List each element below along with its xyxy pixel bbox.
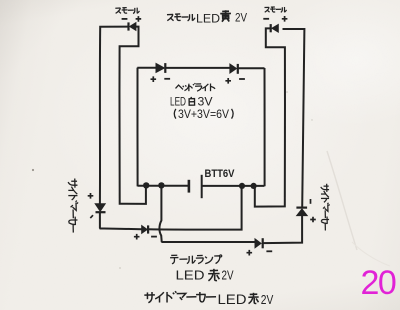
wire: headlight box top edge segment 3 — [238, 67, 265, 69]
LED D4 headlight right (white), anode left — [230, 64, 238, 74]
label plus of D4 — [225, 78, 231, 84]
svg-text:20: 20 — [361, 264, 396, 302]
label BTT6V — [205, 168, 235, 180]
page number 20 (magenta) — [361, 264, 396, 302]
label スモール of D1 — [115, 8, 139, 14]
label minus of D6 — [310, 199, 312, 204]
wire: top-left LED cathode to left rail, down to D5 — [100, 27, 128, 204]
label サイドマーカー of D5 (vertical) — [68, 179, 78, 233]
LED D3 headlight left (white), anode left — [156, 63, 165, 73]
label サイドマーカー of D6 (vertical) — [321, 184, 330, 231]
LED D8 tail-lamp right, anode left — [255, 238, 263, 248]
title スモール LED 黄 2V — [167, 10, 247, 25]
label テールランプ — [170, 255, 222, 264]
label (3V+3V=6V) — [174, 109, 233, 121]
wire: headlight box left edge — [136, 68, 138, 187]
LED D2 small right (yellow), cathode left — [271, 24, 279, 32]
wire: headlight box right edge — [263, 68, 265, 186]
wire: D8 cathode to right corner up to D6 — [263, 216, 302, 243]
wire: headlight box top edge segment 2 — [166, 67, 230, 69]
svg-text:LED: LED — [196, 11, 220, 25]
label ヘッドライト — [176, 83, 216, 91]
label plus of D5 — [88, 193, 94, 199]
wire: node B drop with hop over tail row, to lower lamp row — [159, 187, 254, 242]
paper crease (bottom right) — [327, 151, 357, 250]
LED D1 small left (yellow), cathode left — [129, 22, 136, 30]
label minus of D2 — [263, 18, 269, 20]
svg-text:2V: 2V — [261, 293, 274, 307]
wire: battery line right segment — [202, 185, 264, 187]
wire: tail-lamp row right segment up to node C — [148, 187, 241, 229]
label plus of D8 — [247, 250, 253, 256]
node D junction dot — [251, 183, 257, 189]
svg-text:2V: 2V — [222, 269, 235, 283]
svg-text:LED: LED — [218, 292, 247, 307]
label minus of D7 — [151, 236, 157, 238]
wire: top-left LED anode step down to node A — [119, 27, 145, 204]
wire: D5 cathode down to tail-lamp row — [100, 212, 142, 229]
svg-text:3V: 3V — [198, 94, 213, 108]
label サイドマーカー LED 赤 2V — [144, 291, 274, 307]
label plus of D3 — [151, 76, 157, 82]
label LED 赤 2V (tail lamp) — [176, 268, 235, 283]
LED D5 side-marker left, pointing down — [95, 204, 105, 212]
label minus of D1 — [122, 18, 128, 20]
svg-text:BTT6V: BTT6V — [205, 168, 235, 180]
wire: battery line left segment — [138, 185, 189, 187]
label LED 白 3V — [170, 94, 213, 108]
label minus of D4 — [239, 78, 245, 80]
wire: D6 cathode up right rail to top-right LED anode — [283, 29, 305, 208]
label plus of D6 — [310, 217, 316, 223]
label minus of D8 — [266, 250, 272, 252]
node C junction dot — [239, 183, 245, 189]
svg-text:LED: LED — [176, 268, 205, 283]
label plus of D1 — [136, 16, 142, 22]
node B junction dot — [158, 182, 164, 188]
wire: headlight box top edge segment 1 — [137, 67, 156, 69]
label plus of D7 — [134, 234, 140, 240]
label スモール of D2 — [264, 7, 286, 12]
paper specks — [32, 169, 34, 171]
node A junction dot — [143, 182, 149, 188]
label minus of D3 — [164, 78, 170, 80]
label plus of D2 — [282, 16, 288, 22]
svg-text:2V: 2V — [235, 13, 247, 25]
svg-text:LED: LED — [170, 94, 186, 108]
LED D7 tail-lamp left, anode left — [142, 225, 148, 233]
battery BTT6V negative plate — [188, 180, 191, 193]
label minus of D5 — [90, 215, 93, 218]
svg-text:3V+3V=6V: 3V+3V=6V — [178, 109, 229, 121]
LED D6 side-marker right, pointing up — [296, 208, 307, 216]
wire: top-right LED cathode step down to node D — [255, 28, 285, 206]
battery BTT6V positive plate — [201, 175, 203, 198]
